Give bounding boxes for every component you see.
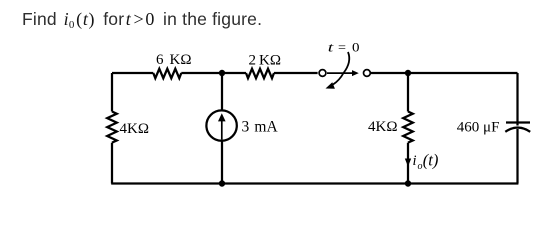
svg-text:io(t): io(t) <box>413 151 439 172</box>
svg-text:4KΩ: 4KΩ <box>368 119 397 135</box>
svg-text:6 KΩ: 6 KΩ <box>156 52 192 68</box>
svg-text:t=0: t=0 <box>328 40 360 55</box>
svg-text:3 mA: 3 mA <box>242 118 279 135</box>
svg-text:4KΩ: 4KΩ <box>120 121 149 137</box>
svg-text:460 μF: 460 μF <box>457 119 500 135</box>
svg-text:2 KΩ: 2 KΩ <box>249 53 281 69</box>
